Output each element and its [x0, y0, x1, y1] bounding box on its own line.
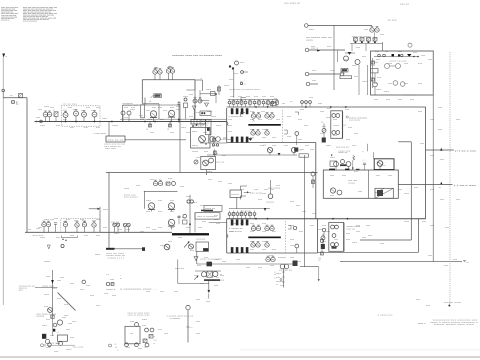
svg-text:xxx: xxx	[261, 111, 266, 113]
svg-text:xxx: xxx	[376, 175, 381, 177]
svg-text:xxx: xxx	[126, 347, 131, 349]
svg-text:xxx: xxx	[456, 199, 461, 201]
label bl2	[36, 314, 57, 318]
pot R13	[321, 122, 326, 143]
wire interstage vertical	[99, 207, 101, 233]
svg-text:xxx: xxx	[254, 189, 259, 191]
ic U3 pins	[231, 108, 249, 142]
label aux top	[306, 37, 332, 42]
svg-text:xxx: xxx	[19, 290, 24, 292]
wire k1 stubs	[359, 65, 368, 95]
wire output plus	[426, 148, 477, 153]
svg-text:xxx: xxx	[262, 223, 267, 225]
wire bl horiz	[35, 287, 58, 289]
resistor R7	[167, 122, 172, 131]
svg-text:xxx: xxx	[228, 125, 233, 127]
svg-text:(-) xx.x xxx: (-) xx.x xxx	[454, 184, 476, 187]
rail dashed F	[282, 110, 284, 142]
svg-text:xxx: xxx	[270, 189, 275, 191]
svg-text:xxx: xxx	[206, 301, 211, 303]
connector J1 input rail	[2, 54, 4, 305]
svg-text:xxx: xxx	[70, 127, 75, 129]
transistor Q13	[370, 27, 379, 33]
label q19 area	[338, 150, 364, 153]
transformer T1	[201, 156, 216, 169]
svg-text:xxx: xxx	[196, 333, 201, 335]
svg-text:xxx: xxx	[90, 295, 95, 297]
svg-text:xxx: xxx	[146, 227, 151, 229]
svg-text:xxx: xxx	[290, 257, 295, 259]
label bc top	[120, 275, 122, 280]
pot R15	[321, 234, 325, 249]
svg-text:xxx xx xx: xxx xx xx	[108, 139, 124, 141]
svg-text:xxx: xxx	[158, 211, 163, 213]
svg-text:xxx: xxx	[192, 131, 198, 133]
svg-text:xxx: xxx	[287, 136, 292, 138]
wire left vertical	[26, 98, 28, 233]
svg-text:xxx: xxx	[160, 119, 165, 121]
svg-text:xxx xxxx xx: xxx xxxx xx	[284, 3, 301, 5]
svg-text:xxx: xxx	[354, 133, 359, 135]
svg-text:xxx: xxx	[388, 175, 393, 177]
box right bottom A	[318, 219, 418, 253]
resistor R5 block	[154, 94, 162, 98]
svg-text:xxx: xxx	[70, 283, 75, 285]
svg-text:xxx: xxx	[398, 51, 403, 53]
label limiter	[244, 191, 263, 194]
svg-text:xxx: xxx	[228, 139, 233, 141]
label rc lower	[240, 211, 250, 213]
transistor Q23	[330, 188, 342, 195]
svg-text:xxx: xxx	[206, 89, 212, 91]
wire k2 drop	[207, 135, 209, 143]
svg-text:xxx: xxx	[212, 145, 218, 147]
wire mid lower vert	[189, 195, 195, 233]
wire sub rail	[268, 155, 319, 272]
lamp DS1	[266, 180, 275, 204]
svg-text:xxx: xxx	[202, 221, 207, 223]
svg-text:xxx: xxx	[280, 285, 285, 287]
svg-text:xxx: xxx	[368, 235, 373, 237]
diode CR10	[200, 101, 209, 107]
circle bl open	[82, 280, 86, 284]
svg-text:xxxx: xxxx	[224, 85, 227, 87]
svg-text:xxx: xxx	[250, 249, 255, 251]
chain mid right	[311, 172, 315, 188]
transistor Q30	[288, 226, 299, 254]
wire meter out	[125, 139, 186, 141]
label ic U3	[229, 116, 243, 118]
svg-text:xxx: xxx	[192, 202, 198, 204]
svg-text:xxx: xxx	[211, 116, 217, 118]
svg-text:xxx: xxx	[318, 260, 320, 262]
svg-text:xxx: xxx	[168, 178, 173, 180]
label bottom conn2	[109, 344, 119, 352]
svg-text:xxx: xxx	[74, 220, 79, 222]
svg-text:xxx: xxx	[418, 63, 423, 65]
box regulator E2	[329, 223, 344, 252]
capacitor C9	[271, 102, 277, 106]
svg-text:xxx: xxx	[196, 157, 201, 159]
capacitor C12	[54, 223, 57, 233]
transistor Q7	[150, 111, 157, 122]
svg-text:xxx: xxx	[422, 221, 427, 223]
transistor Q49	[48, 308, 53, 313]
svg-text:xxx: xxx	[96, 127, 101, 129]
label lower mid	[196, 239, 206, 241]
svg-text:x x: x x	[363, 159, 365, 161]
rail dashed	[449, 52, 451, 305]
svg-text:xxx: xxx	[320, 111, 325, 113]
svg-text:xxx: xxx	[376, 89, 382, 91]
svg-text:xxx: xxx	[216, 125, 222, 127]
svg-text:xxxx xxx xx xx: xxxx xxx xx xx	[104, 144, 126, 146]
diode pair CR2	[153, 69, 162, 80]
dashed box lower preamp	[61, 219, 100, 233]
svg-text:xxx: xxx	[152, 229, 157, 231]
arrow open W1	[47, 245, 50, 249]
svg-text:xxx: xxx	[298, 119, 303, 121]
arrow diag lower	[184, 242, 190, 248]
svg-text:xxx: xxx	[358, 191, 363, 193]
transistor Q37	[63, 221, 67, 232]
svg-text:xxx: xxx	[430, 225, 435, 227]
svg-text:xxx: xxx	[86, 285, 91, 287]
chain lower left col	[322, 228, 325, 236]
box relay K1	[340, 76, 352, 79]
svg-text:(+) xx.x xxx: (+) xx.x xxx	[455, 149, 476, 152]
svg-text:xxx: xxx	[320, 133, 325, 135]
svg-text:xxx: xxx	[344, 59, 349, 61]
svg-text:xx xx: xx xx	[111, 222, 120, 224]
svg-text:xxxx xxx: xxxx xxx	[444, 302, 462, 304]
svg-text:xxx: xxx	[214, 153, 219, 155]
ic U3 notch	[227, 122, 228, 125]
svg-text:xxx: xxx	[250, 231, 255, 233]
label br small	[418, 323, 427, 325]
svg-text:xxx: xxx	[374, 99, 379, 101]
svg-text:xxx: xxx	[176, 109, 181, 111]
wire limiter drop	[236, 198, 238, 209]
svg-text:xxx: xxx	[170, 132, 175, 134]
svg-text:x xxxxx xx: x xxxxx xx	[229, 228, 243, 230]
svg-text:xxx: xxx	[28, 229, 31, 231]
svg-text:xxx: xxx	[430, 119, 435, 121]
transistor Q19	[267, 147, 272, 155]
svg-text:xxx: xxx	[354, 171, 359, 173]
svg-text:xxx: xxx	[374, 62, 379, 64]
svg-text:xxx: xxx	[50, 107, 55, 109]
svg-text:xxx: xxx	[46, 347, 51, 349]
transistor Q24 top	[334, 162, 351, 170]
parts upper tile10	[166, 182, 176, 186]
node left wire ticks	[10, 95, 13, 97]
svg-text:xxx: xxx	[140, 119, 145, 121]
svg-text:xxx: xxx	[322, 126, 327, 128]
svg-text:xxxxx: xxxxx	[36, 316, 45, 318]
label T1	[215, 162, 225, 164]
svg-text:xxx: xxx	[262, 96, 267, 98]
svg-text:xxx: xxx	[246, 96, 251, 98]
svg-text:xxx: xxx	[170, 200, 175, 202]
svg-text:xxx: xxx	[354, 76, 359, 78]
label meter select	[104, 144, 126, 150]
svg-text:xxx: xxx	[290, 101, 293, 103]
transistor Q20	[291, 147, 296, 155]
wire mid vertical	[179, 105, 181, 173]
rc network lower row	[228, 209, 270, 219]
svg-text:xxxx xxx: xxxx xxx	[124, 195, 137, 197]
svg-text:xxxx x: xxxx x	[418, 323, 427, 325]
svg-text:xx xxx: xx xxx	[215, 280, 225, 282]
svg-text:xxx xxxx xx: xxx xxxx xx	[104, 146, 122, 148]
svg-text:xxx: xxx	[330, 195, 335, 197]
svg-text:xxx: xxx	[170, 227, 175, 229]
svg-text:xxx: xxx	[66, 219, 71, 221]
svg-text:xxx: xxx	[298, 139, 303, 141]
circle Q45	[164, 244, 170, 250]
svg-text:xxx: xxx	[66, 349, 71, 351]
svg-text:xxx: xxx	[326, 117, 331, 119]
svg-text:xxx: xxx	[124, 188, 130, 190]
box center shield lower	[227, 219, 318, 253]
svg-text:xxx: xxx	[176, 106, 181, 108]
wire tile10	[144, 191, 178, 209]
label T2	[215, 280, 225, 282]
svg-text:xxx: xxx	[142, 319, 148, 321]
svg-text:xxx: xxx	[456, 119, 461, 121]
box bc	[125, 326, 140, 344]
transistor Q25 top	[377, 161, 383, 170]
svg-text:xxx: xxx	[214, 285, 219, 287]
svg-text:xxx: xxx	[385, 51, 388, 53]
svg-text:xxx: xxx	[130, 109, 136, 111]
zener VR1	[184, 98, 188, 119]
pot R12	[252, 119, 255, 123]
svg-text:xxx: xxx	[168, 241, 173, 243]
svg-text:xxx xx: xxx xx	[215, 162, 225, 164]
svg-text:xxx: xxx	[228, 119, 233, 121]
svg-text:xxx: xxx	[410, 99, 415, 101]
svg-text:xxx: xxx	[439, 187, 441, 189]
svg-text:xxx: xxx	[371, 65, 376, 67]
svg-text:xxx: xxx	[200, 205, 205, 207]
svg-text:xxx: xxx	[158, 200, 163, 202]
svg-text:xxx: xxx	[333, 135, 338, 137]
svg-text:xxxx x xxxx xxxxx xxxxxxx x: xxxx x xxxx xxxxx xxxxxxx x	[430, 322, 479, 324]
box relay K2	[206, 120, 212, 135]
transistor Q2	[47, 111, 52, 122]
svg-text:xxx: xxx	[404, 83, 409, 85]
svg-text:xxx: xxx	[302, 211, 307, 213]
svg-text:xxx: xxx	[186, 196, 191, 198]
parts bc chain	[143, 328, 157, 349]
bar mid F	[248, 124, 280, 126]
svg-text:xxx: xxx	[196, 299, 201, 301]
svg-text:xxx: xxx	[240, 223, 245, 225]
svg-text:xxx: xxx	[297, 261, 302, 263]
fuse F1	[19, 94, 23, 98]
svg-text:xxx: xxx	[186, 132, 191, 134]
svg-text:xxx: xxx	[250, 111, 255, 113]
transistor Q42	[148, 203, 155, 212]
svg-text:< xxx xxxx: < xxx xxxx	[93, 133, 106, 135]
rc network upper row	[228, 99, 278, 107]
box right bottom B	[360, 142, 411, 240]
svg-text:xxx: xxx	[272, 249, 277, 251]
box outer right rail	[432, 51, 434, 262]
resistor R11	[371, 69, 378, 96]
transistor Q22	[332, 131, 340, 135]
svg-text:xxx: xxx	[84, 127, 89, 129]
icon signal b	[393, 81, 405, 87]
label C topline	[331, 147, 350, 157]
box top center shield	[142, 80, 195, 120]
diode CR9	[51, 280, 54, 284]
box mixer	[200, 111, 211, 116]
svg-text:xxx: xxx	[352, 65, 357, 67]
svg-text:xx xxxxx xxx xx: xx xxxxx xxx xx	[306, 37, 332, 39]
chain inner	[371, 54, 419, 88]
svg-text:xxx: xxx	[404, 193, 410, 195]
svg-text:xxx: xxx	[44, 106, 50, 108]
svg-text:xxx: xxx	[304, 125, 309, 127]
varistor RV1	[227, 61, 239, 87]
svg-text:xxx xx: xxx xx	[175, 268, 185, 270]
wire rn1 drop	[350, 32, 382, 51]
wire aux vert	[333, 25, 335, 90]
wire T1 drop	[207, 149, 217, 175]
svg-text:xxx: xxx	[124, 107, 129, 109]
svg-text:xxxx: xxxx	[306, 40, 314, 42]
svg-text:xxx: xxx	[167, 129, 169, 131]
svg-text:xxxx xxxx xxxx xxxx: xxxx xxxx xxxx xxxx	[1, 19, 9, 21]
svg-text:xxx: xxx	[398, 189, 403, 191]
wire q11 link	[186, 80, 200, 99]
diode pair CR3	[166, 68, 174, 80]
svg-text:xxx: xxx	[146, 129, 148, 131]
svg-text:xxx: xxx	[196, 321, 201, 323]
diode CR8	[248, 138, 252, 141]
transistor Q41	[153, 180, 162, 186]
svg-text:x xx: x xx	[114, 344, 117, 346]
svg-text:xxx: xxx	[192, 124, 194, 126]
svg-text:xxx: xxx	[421, 55, 426, 57]
svg-text:xxx: xxx	[46, 319, 51, 321]
svg-text:xxxxxx xxx: xxxxxx xxx	[123, 105, 139, 107]
meter M1	[2, 89, 21, 105]
svg-text:xxxx: xxxx	[348, 183, 356, 185]
wire top stub	[195, 78, 203, 91]
label bc line	[120, 289, 158, 291]
svg-text:xxx xxx: xxx xxx	[33, 235, 45, 237]
box meter select	[106, 136, 125, 142]
svg-text:xxx: xxx	[222, 155, 227, 157]
svg-text:xxx: xxx	[204, 257, 209, 259]
svg-text:xxx: xxx	[312, 213, 317, 215]
svg-text:xxx: xxx	[228, 183, 233, 185]
svg-text:xxx: xxx	[333, 225, 338, 227]
svg-text:xxx: xxx	[110, 279, 115, 281]
rail dashed F2	[285, 221, 287, 253]
node bus dots upper	[65, 121, 180, 123]
svg-text:xxx: xxx	[310, 149, 315, 151]
svg-text:xxx: xxx	[52, 288, 58, 290]
box stage2 enclosure	[123, 105, 181, 122]
svg-text:xxx xxx: xxx xxx	[105, 148, 117, 150]
svg-text:xxx: xxx	[220, 275, 225, 277]
svg-text:xxx: xxx	[300, 149, 305, 151]
svg-text:xxx: xxx	[312, 70, 317, 72]
svg-text:xxx: xxx	[54, 351, 59, 353]
svg-text:xxx: xxx	[334, 239, 339, 241]
micro value labels	[28, 29, 458, 350]
wire top right vert	[233, 70, 235, 98]
svg-text:xx xxx: xx xxx	[388, 20, 398, 22]
svg-text:xxx: xxx	[186, 227, 191, 229]
svg-text:xxxx xx: xxxx xx	[205, 208, 216, 210]
svg-text:xxx: xxx	[356, 225, 361, 227]
transistor Q36	[46, 221, 50, 232]
label stage2	[123, 103, 139, 107]
svg-text:xxx xx: xxx xx	[346, 228, 356, 230]
svg-text:xxx: xxx	[136, 185, 141, 187]
label misc adds	[42, 254, 101, 290]
node lower bus dots	[255, 218, 348, 220]
svg-text:xxx: xxx	[57, 298, 62, 300]
transistor Q15	[265, 113, 274, 119]
bracket upper left	[241, 98, 247, 117]
label E right2	[343, 125, 346, 127]
svg-text:xxx: xxx	[112, 125, 119, 127]
transistor Q52	[210, 137, 227, 147]
transistor Q43	[168, 203, 175, 212]
svg-text:xxx: xxx	[103, 227, 108, 229]
svg-text:xxx xxx: xxx xxx	[240, 211, 250, 213]
svg-text:xxx: xxx	[44, 306, 49, 308]
svg-text:xxx: xxx	[95, 254, 101, 256]
icon signal a	[385, 64, 401, 69]
svg-text:xx xx: xx xx	[348, 180, 357, 182]
cap C10 top	[363, 159, 367, 170]
connector stubs mid	[240, 71, 248, 85]
transistor Q46	[266, 256, 275, 262]
svg-text:xxx: xxx	[250, 223, 255, 225]
svg-text:xxx xx xxx: xxx xx xxx	[106, 253, 125, 255]
box limiter	[230, 190, 241, 198]
transistor Q32	[331, 243, 339, 247]
svg-text:xxx: xxx	[246, 267, 251, 269]
svg-text:x xxxx xxx: x xxxx xxx	[378, 315, 394, 317]
resistor R6	[146, 122, 152, 131]
svg-text:xxx: xxx	[66, 329, 71, 331]
wire bl vert	[52, 270, 54, 310]
svg-text:xxx: xxx	[40, 237, 46, 239]
wire V2 feed	[108, 173, 110, 248]
svg-text:xxx: xxx	[287, 116, 292, 118]
svg-text:xxx: xxx	[438, 107, 443, 109]
svg-text:xxx: xxx	[130, 321, 135, 323]
svg-text:xxx: xxx	[200, 283, 205, 285]
svg-text:xxx: xxx	[102, 118, 108, 120]
svg-text:xxx: xxx	[276, 277, 281, 279]
svg-text:xxx: xxx	[364, 29, 369, 31]
svg-text:xxx: xxx	[296, 205, 301, 207]
svg-text:xx xx: xx xx	[154, 340, 157, 342]
svg-text:xxx: xxx	[380, 34, 385, 36]
svg-text:xxx: xxx	[309, 97, 314, 99]
svg-text:xxx: xxx	[299, 231, 304, 233]
